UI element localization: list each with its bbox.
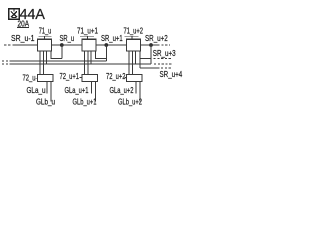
svg-text:GLa_u: GLa_u bbox=[27, 86, 46, 95]
svg-text:SR_u+1: SR_u+1 bbox=[101, 34, 123, 43]
label 71_u+2 bbox=[124, 26, 144, 39]
node SR_u+2 bbox=[149, 43, 153, 47]
bus line A bbox=[11, 60, 106, 62]
svg-text:GLb_u+2: GLb_u+2 bbox=[118, 98, 142, 107]
bus line B dashed left end bbox=[2, 63, 11, 65]
wire SR_u+4 dashed continuation bbox=[161, 67, 173, 69]
bus line A dashed left end bbox=[2, 60, 11, 62]
wire 71_u+2 pin2 bbox=[132, 51, 134, 75]
output unit box 72_u bbox=[37, 75, 53, 82]
wire 71_u+1 pin3 bbox=[90, 51, 92, 64]
output unit box 72_u+1 bbox=[82, 75, 98, 82]
title 図44A bbox=[9, 9, 19, 20]
label 71_u bbox=[39, 26, 52, 39]
SR unit box 71_u bbox=[37, 39, 51, 51]
wire GLa_u+2 bbox=[135, 82, 137, 94]
wire SR_u bbox=[52, 44, 82, 46]
node SR_u bbox=[60, 43, 64, 47]
node SR_u+1 bbox=[104, 43, 108, 47]
wire 71_u+1 pin2 bbox=[87, 51, 89, 75]
svg-text:71_u+2: 71_u+2 bbox=[124, 26, 144, 35]
wire SR_u+2 dashed continuation bbox=[158, 44, 171, 46]
SR unit box 71_u+1 bbox=[82, 39, 96, 51]
wire 71_u pin3 bbox=[46, 51, 48, 64]
wire node SR_u+1 drop bbox=[105, 45, 107, 61]
svg-text:GLa_u+1: GLa_u+1 bbox=[65, 86, 89, 95]
SR unit box 71_u+2 bbox=[126, 39, 140, 51]
svg-text:72_u+2: 72_u+2 bbox=[106, 72, 126, 81]
bus line B dashed right end bbox=[154, 63, 172, 65]
label 71_u+1 bbox=[77, 26, 98, 39]
wire 71_u pin1 bbox=[39, 51, 41, 75]
leader 72_u+2 bbox=[125, 76, 127, 79]
svg-text:72_u: 72_u bbox=[23, 73, 36, 82]
underline 20A bbox=[17, 26, 29, 29]
wire 71_u+2 pin3 bbox=[135, 51, 137, 64]
svg-text:SR_u+2: SR_u+2 bbox=[145, 34, 168, 43]
wire GLa_u bbox=[46, 82, 48, 94]
wire feedback hook stage u+1 bbox=[96, 51, 107, 59]
svg-text:SR_u-1: SR_u-1 bbox=[11, 34, 35, 43]
wire SR_u-1 dashed continuation bbox=[4, 44, 15, 46]
wire 71_u+1 pin1 bbox=[84, 51, 86, 75]
wire GLb_u bbox=[50, 82, 52, 102]
wire stage u+2 corner drop to SR_u+4 level bbox=[139, 59, 141, 69]
bus line B bbox=[11, 63, 151, 65]
svg-text:SR_u: SR_u bbox=[60, 34, 75, 43]
wire SR_u-1 bbox=[15, 44, 37, 46]
svg-text:71_u: 71_u bbox=[39, 26, 52, 35]
svg-text:71_u+1: 71_u+1 bbox=[77, 26, 98, 35]
wire feedback hook stage u+2 bbox=[140, 51, 151, 59]
output unit box 72_u+2 bbox=[126, 75, 142, 82]
svg-text:SR_u+3: SR_u+3 bbox=[153, 49, 176, 58]
wire 71_u pin2 bbox=[43, 51, 45, 75]
svg-text:GLb_u+1: GLb_u+1 bbox=[73, 98, 97, 107]
wire SR_u+3 dashed continuation bbox=[154, 58, 173, 60]
svg-text:72_u+1: 72_u+1 bbox=[60, 72, 80, 81]
wire node SR_u+2 drop bbox=[150, 45, 152, 64]
wire node SR_u drop bbox=[61, 45, 63, 59]
wire SR_u+1 bbox=[96, 44, 126, 46]
wire GLb_u+2 bbox=[139, 82, 141, 102]
wire feedback hook stage u bbox=[51, 51, 62, 59]
leader 72_u bbox=[36, 77, 38, 80]
svg-text:GLb_u: GLb_u bbox=[36, 98, 55, 107]
leader 72_u+1 bbox=[80, 76, 82, 79]
wire 71_u+2 pin1 bbox=[128, 51, 130, 75]
svg-text:SR_u+4: SR_u+4 bbox=[160, 70, 183, 79]
wire GLa_u+1 bbox=[91, 82, 93, 94]
svg-text:GLa_u+2: GLa_u+2 bbox=[110, 86, 134, 95]
wire GLb_u+1 bbox=[94, 82, 96, 102]
wire SR_u+4 line bbox=[140, 67, 159, 69]
wire SR_u+2 bbox=[141, 44, 158, 46]
